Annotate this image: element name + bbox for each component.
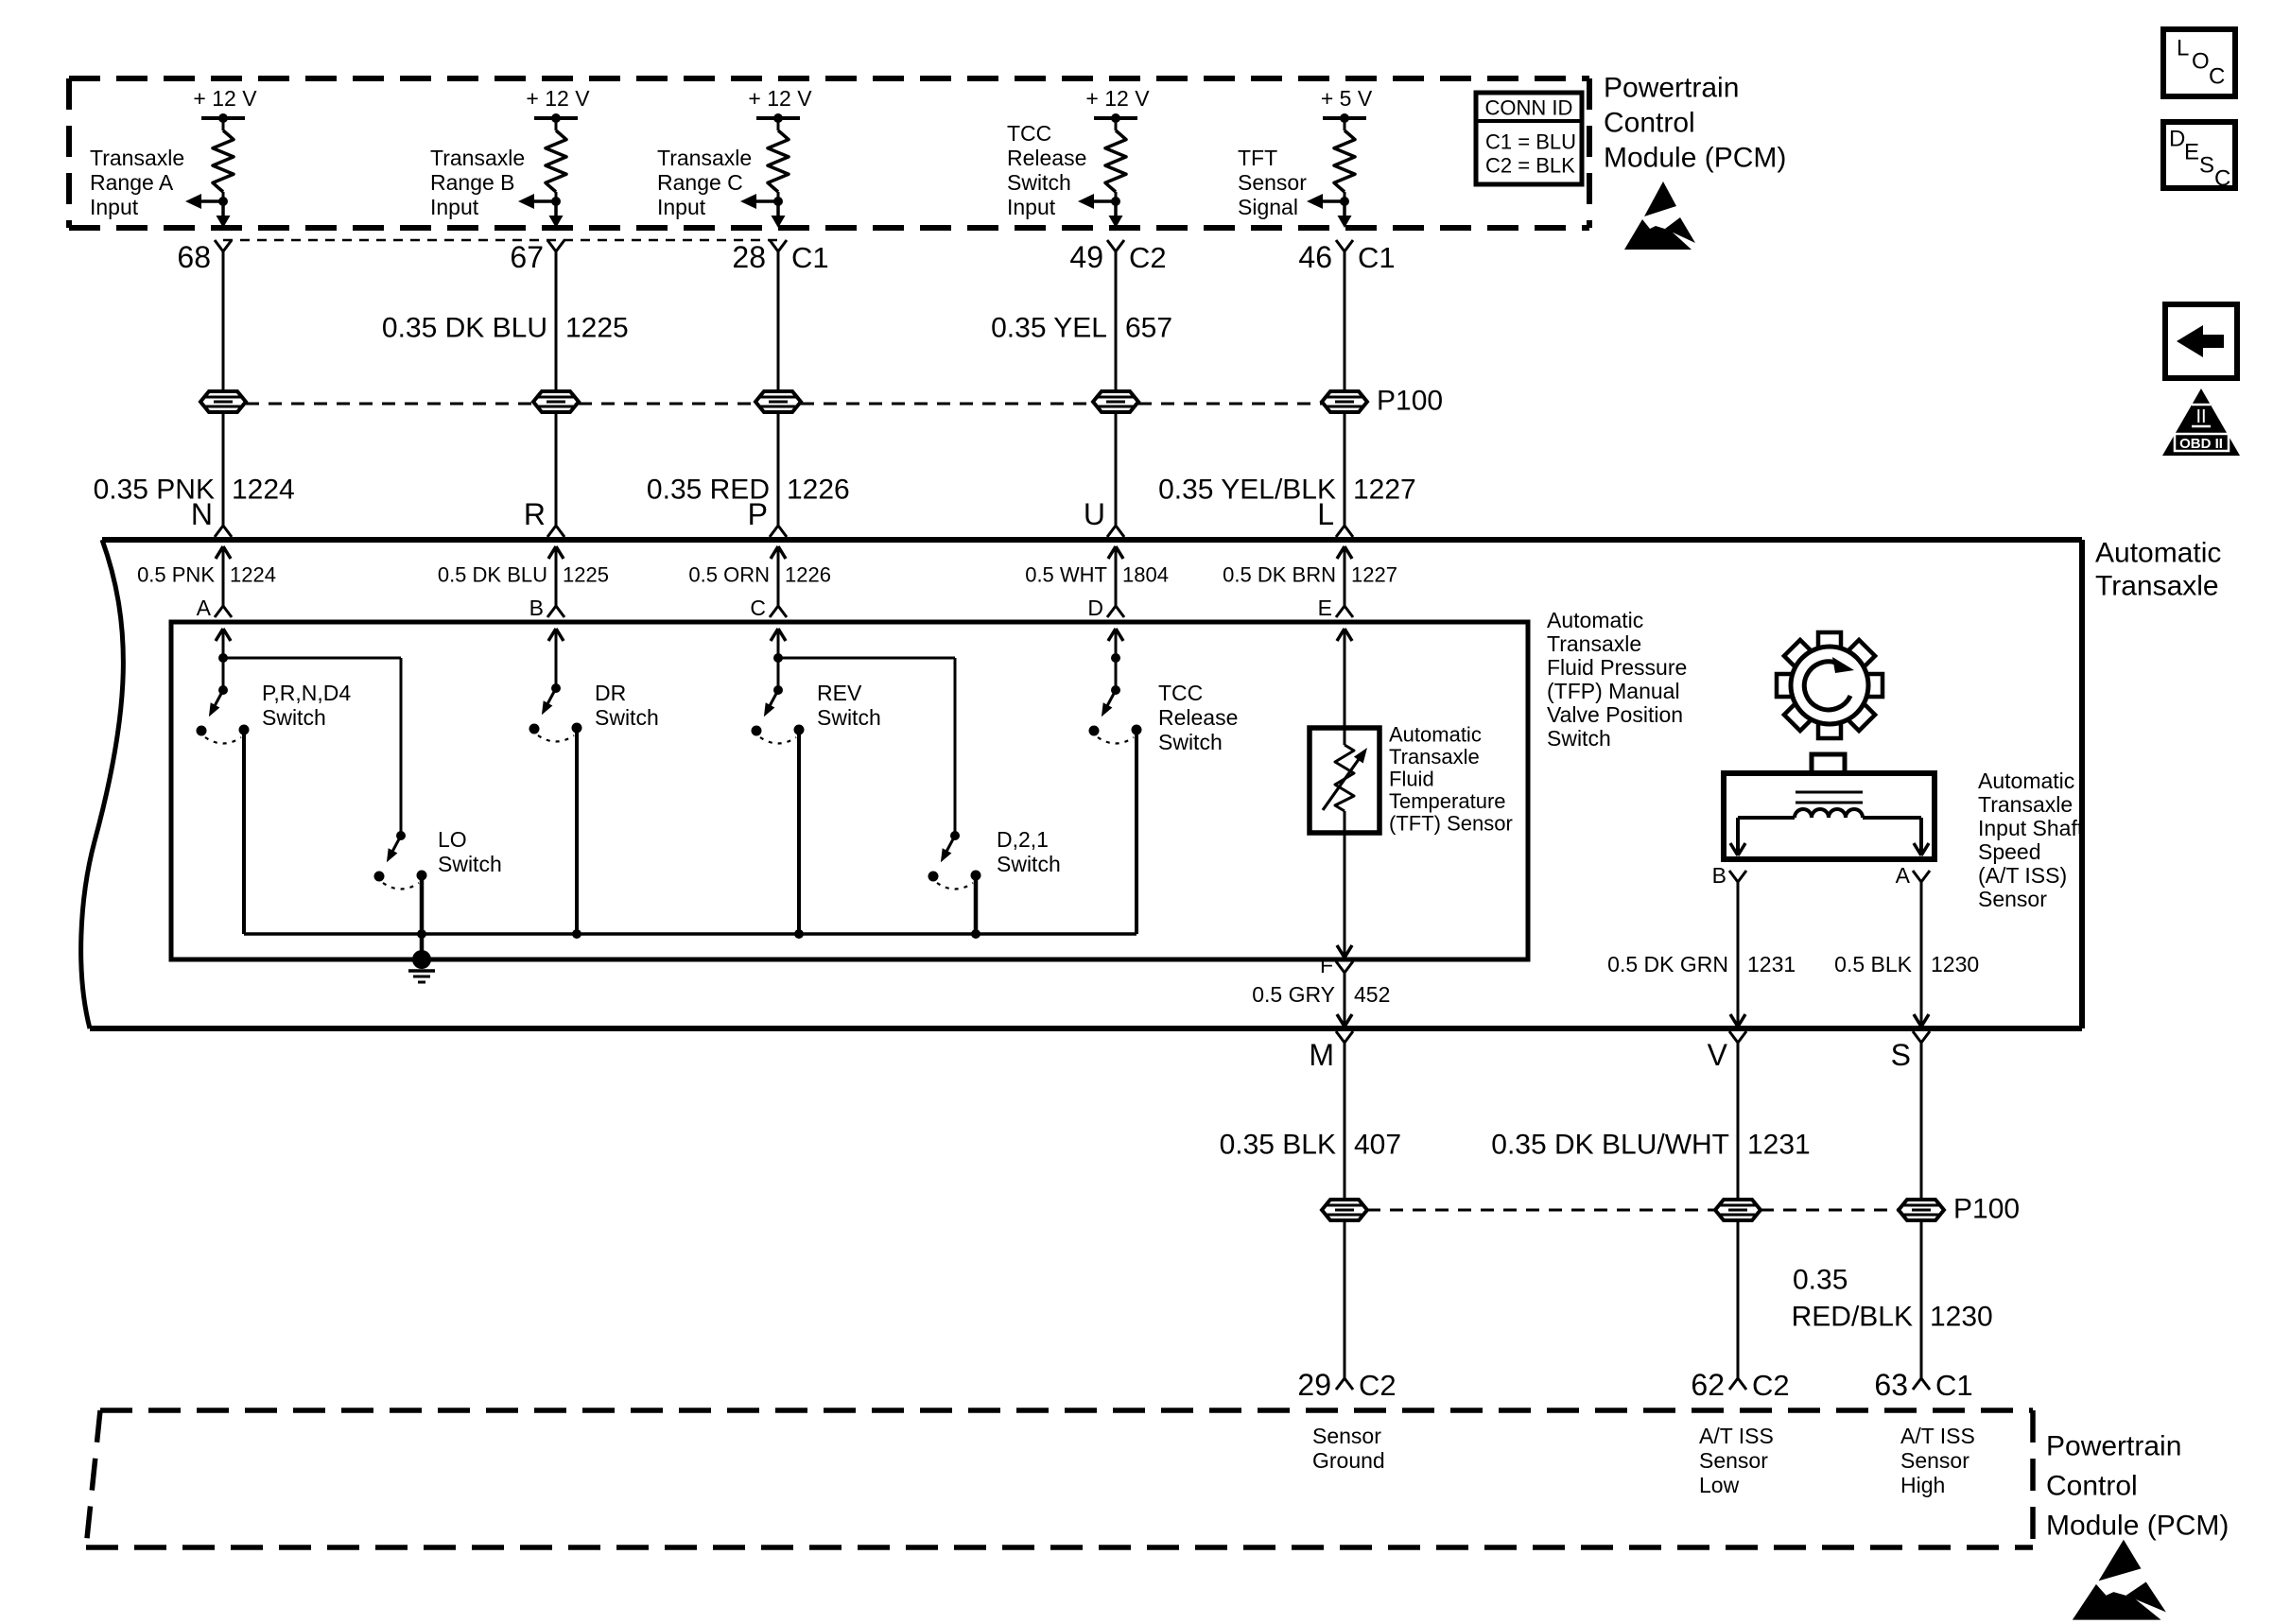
svg-text:1804: 1804 xyxy=(1122,563,1169,587)
svg-text:+ 12 V: + 12 V xyxy=(193,86,257,111)
svg-text:Ground: Ground xyxy=(1312,1448,1385,1473)
svg-text:Input: Input xyxy=(90,195,139,219)
svg-text:High: High xyxy=(1900,1473,1945,1497)
svg-text:Transaxle: Transaxle xyxy=(1389,745,1480,769)
svg-text:C1 = BLU: C1 = BLU xyxy=(1485,130,1576,154)
svg-text:C2: C2 xyxy=(1359,1369,1397,1402)
svg-text:0.35 DK BLU/WHT: 0.35 DK BLU/WHT xyxy=(1491,1130,1729,1161)
svg-text:Switch: Switch xyxy=(817,705,881,730)
svg-text:Transaxle: Transaxle xyxy=(90,146,184,170)
svg-text:1227: 1227 xyxy=(1351,563,1397,587)
svg-text:F: F xyxy=(1320,953,1333,977)
svg-text:Switch: Switch xyxy=(438,852,502,876)
svg-text:P100: P100 xyxy=(1953,1194,2020,1225)
svg-text:62: 62 xyxy=(1691,1368,1725,1402)
svg-text:Fluid Pressure: Fluid Pressure xyxy=(1547,655,1687,680)
svg-text:0.5 GRY: 0.5 GRY xyxy=(1252,982,1335,1007)
svg-text:Release: Release xyxy=(1007,146,1086,170)
svg-text:Input: Input xyxy=(1007,195,1056,219)
svg-text:RED/BLK: RED/BLK xyxy=(1792,1302,1913,1333)
svg-text:D: D xyxy=(1087,596,1103,620)
svg-text:O: O xyxy=(2192,48,2210,74)
svg-text:452: 452 xyxy=(1354,982,1390,1007)
svg-text:C2: C2 xyxy=(1752,1369,1790,1402)
svg-text:N: N xyxy=(191,497,213,531)
svg-text:1230: 1230 xyxy=(1930,1302,1993,1333)
svg-text:TCC: TCC xyxy=(1158,681,1203,705)
svg-text:Transaxle: Transaxle xyxy=(1978,792,2073,817)
svg-text:Input: Input xyxy=(657,195,706,219)
svg-text:P,R,N,D4: P,R,N,D4 xyxy=(262,681,351,705)
svg-text:B: B xyxy=(1712,863,1726,888)
svg-text:1224: 1224 xyxy=(232,475,295,506)
svg-text:68: 68 xyxy=(177,240,211,274)
svg-text:Sensor: Sensor xyxy=(1699,1448,1768,1473)
svg-text:Low: Low xyxy=(1699,1473,1740,1497)
svg-text:Control: Control xyxy=(2046,1471,2138,1502)
svg-text:Automatic: Automatic xyxy=(2095,538,2221,569)
svg-text:II: II xyxy=(2195,406,2206,427)
svg-text:0.5 DK BLU: 0.5 DK BLU xyxy=(438,563,547,587)
svg-text:Transaxle: Transaxle xyxy=(657,146,752,170)
svg-text:D: D xyxy=(2169,126,2185,151)
svg-text:V: V xyxy=(1708,1038,1728,1072)
svg-text:Control: Control xyxy=(1604,108,1695,139)
svg-text:0.35 YEL: 0.35 YEL xyxy=(991,313,1107,344)
svg-text:0.5 WHT: 0.5 WHT xyxy=(1025,563,1107,587)
svg-text:1230: 1230 xyxy=(1931,952,1979,976)
svg-text:Transaxle: Transaxle xyxy=(430,146,525,170)
svg-text:Sensor: Sensor xyxy=(1978,887,2047,911)
svg-text:TCC: TCC xyxy=(1007,121,1051,146)
svg-text:Transaxle: Transaxle xyxy=(1547,631,1641,656)
svg-text:+ 12 V: + 12 V xyxy=(1085,86,1150,111)
svg-text:B: B xyxy=(529,596,544,620)
svg-text:29: 29 xyxy=(1297,1368,1331,1402)
svg-text:A: A xyxy=(197,596,212,620)
svg-text:C: C xyxy=(2209,63,2225,89)
svg-text:67: 67 xyxy=(510,240,544,274)
svg-text:A/T ISS: A/T ISS xyxy=(1900,1424,1975,1448)
svg-text:Speed: Speed xyxy=(1978,839,2041,864)
svg-text:Range B: Range B xyxy=(430,170,515,195)
svg-text:0.5 DK BRN: 0.5 DK BRN xyxy=(1223,563,1336,587)
svg-text:Sensor: Sensor xyxy=(1900,1448,1969,1473)
svg-text:Switch: Switch xyxy=(262,705,326,730)
svg-text:Powertrain: Powertrain xyxy=(2046,1431,2181,1462)
svg-text:657: 657 xyxy=(1125,313,1172,344)
svg-text:Fluid: Fluid xyxy=(1389,768,1434,791)
svg-text:49: 49 xyxy=(1069,240,1103,274)
svg-text:Module (PCM): Module (PCM) xyxy=(1604,143,1786,174)
svg-text:LO: LO xyxy=(438,827,467,852)
svg-text:Powertrain: Powertrain xyxy=(1604,73,1739,104)
svg-text:1224: 1224 xyxy=(230,563,276,587)
svg-text:Automatic: Automatic xyxy=(1978,769,2074,793)
svg-text:0.5 PNK: 0.5 PNK xyxy=(137,563,215,587)
svg-text:REV: REV xyxy=(817,681,862,705)
svg-text:L: L xyxy=(1317,497,1334,531)
svg-text:(A/T ISS): (A/T ISS) xyxy=(1978,863,2067,888)
svg-text:Automatic: Automatic xyxy=(1389,723,1482,747)
svg-text:(TFT) Sensor: (TFT) Sensor xyxy=(1389,812,1513,836)
svg-text:Range C: Range C xyxy=(657,170,743,195)
svg-text:E: E xyxy=(1318,596,1332,620)
svg-text:Module (PCM): Module (PCM) xyxy=(2046,1511,2229,1542)
svg-text:46: 46 xyxy=(1298,240,1332,274)
svg-text:C2: C2 xyxy=(1129,241,1167,274)
svg-text:+ 5 V: + 5 V xyxy=(1321,86,1373,111)
svg-text:L: L xyxy=(2177,35,2189,60)
svg-text:0.5 DK GRN: 0.5 DK GRN xyxy=(1607,952,1728,976)
svg-text:Input: Input xyxy=(430,195,479,219)
svg-text:Switch: Switch xyxy=(1158,730,1223,754)
svg-text:C1: C1 xyxy=(1358,241,1396,274)
svg-text:63: 63 xyxy=(1874,1368,1908,1402)
svg-text:Release: Release xyxy=(1158,705,1238,730)
svg-text:28: 28 xyxy=(732,240,766,274)
svg-text:OBD II: OBD II xyxy=(2179,436,2223,452)
svg-text:+ 12 V: + 12 V xyxy=(748,86,812,111)
svg-text:Switch: Switch xyxy=(1547,726,1611,751)
svg-text:1226: 1226 xyxy=(785,563,831,587)
svg-text:Signal: Signal xyxy=(1238,195,1298,219)
svg-text:M: M xyxy=(1309,1038,1334,1072)
svg-text:0.5 BLK: 0.5 BLK xyxy=(1834,952,1912,976)
svg-text:CONN ID: CONN ID xyxy=(1485,96,1573,120)
svg-text:A/T ISS: A/T ISS xyxy=(1699,1424,1774,1448)
svg-text:C: C xyxy=(2214,165,2230,191)
svg-text:Range A: Range A xyxy=(90,170,174,195)
svg-text:Switch: Switch xyxy=(1007,170,1071,195)
svg-text:+ 12 V: + 12 V xyxy=(526,86,590,111)
svg-text:C1: C1 xyxy=(1935,1369,1973,1402)
svg-text:407: 407 xyxy=(1354,1130,1401,1161)
svg-text:0.35 YEL/BLK: 0.35 YEL/BLK xyxy=(1158,475,1336,506)
svg-text:Sensor: Sensor xyxy=(1238,170,1307,195)
svg-text:TFT: TFT xyxy=(1238,146,1277,170)
svg-text:S: S xyxy=(1891,1038,1911,1072)
svg-text:Automatic: Automatic xyxy=(1547,608,1643,632)
svg-text:1225: 1225 xyxy=(565,313,629,344)
svg-text:C1: C1 xyxy=(791,241,829,274)
svg-text:1231: 1231 xyxy=(1747,1130,1811,1161)
svg-text:C: C xyxy=(750,596,766,620)
svg-text:0.35: 0.35 xyxy=(1793,1265,1848,1296)
svg-text:1231: 1231 xyxy=(1747,952,1796,976)
svg-text:P: P xyxy=(748,497,768,531)
svg-text:R: R xyxy=(524,497,546,531)
svg-text:Switch: Switch xyxy=(595,705,659,730)
svg-text:U: U xyxy=(1084,497,1105,531)
svg-text:0.35 BLK: 0.35 BLK xyxy=(1220,1130,1336,1161)
svg-text:Temperature: Temperature xyxy=(1389,789,1506,813)
svg-text:C2 = BLK: C2 = BLK xyxy=(1485,154,1575,178)
svg-text:Input Shaft: Input Shaft xyxy=(1978,816,2084,840)
svg-text:Sensor: Sensor xyxy=(1312,1424,1381,1448)
svg-text:Valve Position: Valve Position xyxy=(1547,702,1683,727)
svg-text:Transaxle: Transaxle xyxy=(2095,571,2219,602)
svg-text:1227: 1227 xyxy=(1353,475,1416,506)
svg-text:1225: 1225 xyxy=(563,563,609,587)
svg-text:A: A xyxy=(1896,863,1911,888)
svg-text:0.35 DK BLU: 0.35 DK BLU xyxy=(382,313,547,344)
svg-text:E: E xyxy=(2184,139,2199,164)
svg-text:D,2,1: D,2,1 xyxy=(997,827,1049,852)
svg-text:P100: P100 xyxy=(1377,386,1443,417)
svg-text:0.5 ORN: 0.5 ORN xyxy=(688,563,770,587)
svg-text:1226: 1226 xyxy=(787,475,850,506)
svg-text:(TFP) Manual: (TFP) Manual xyxy=(1547,679,1680,703)
svg-text:DR: DR xyxy=(595,681,626,705)
svg-text:S: S xyxy=(2199,152,2214,178)
svg-text:Switch: Switch xyxy=(997,852,1061,876)
